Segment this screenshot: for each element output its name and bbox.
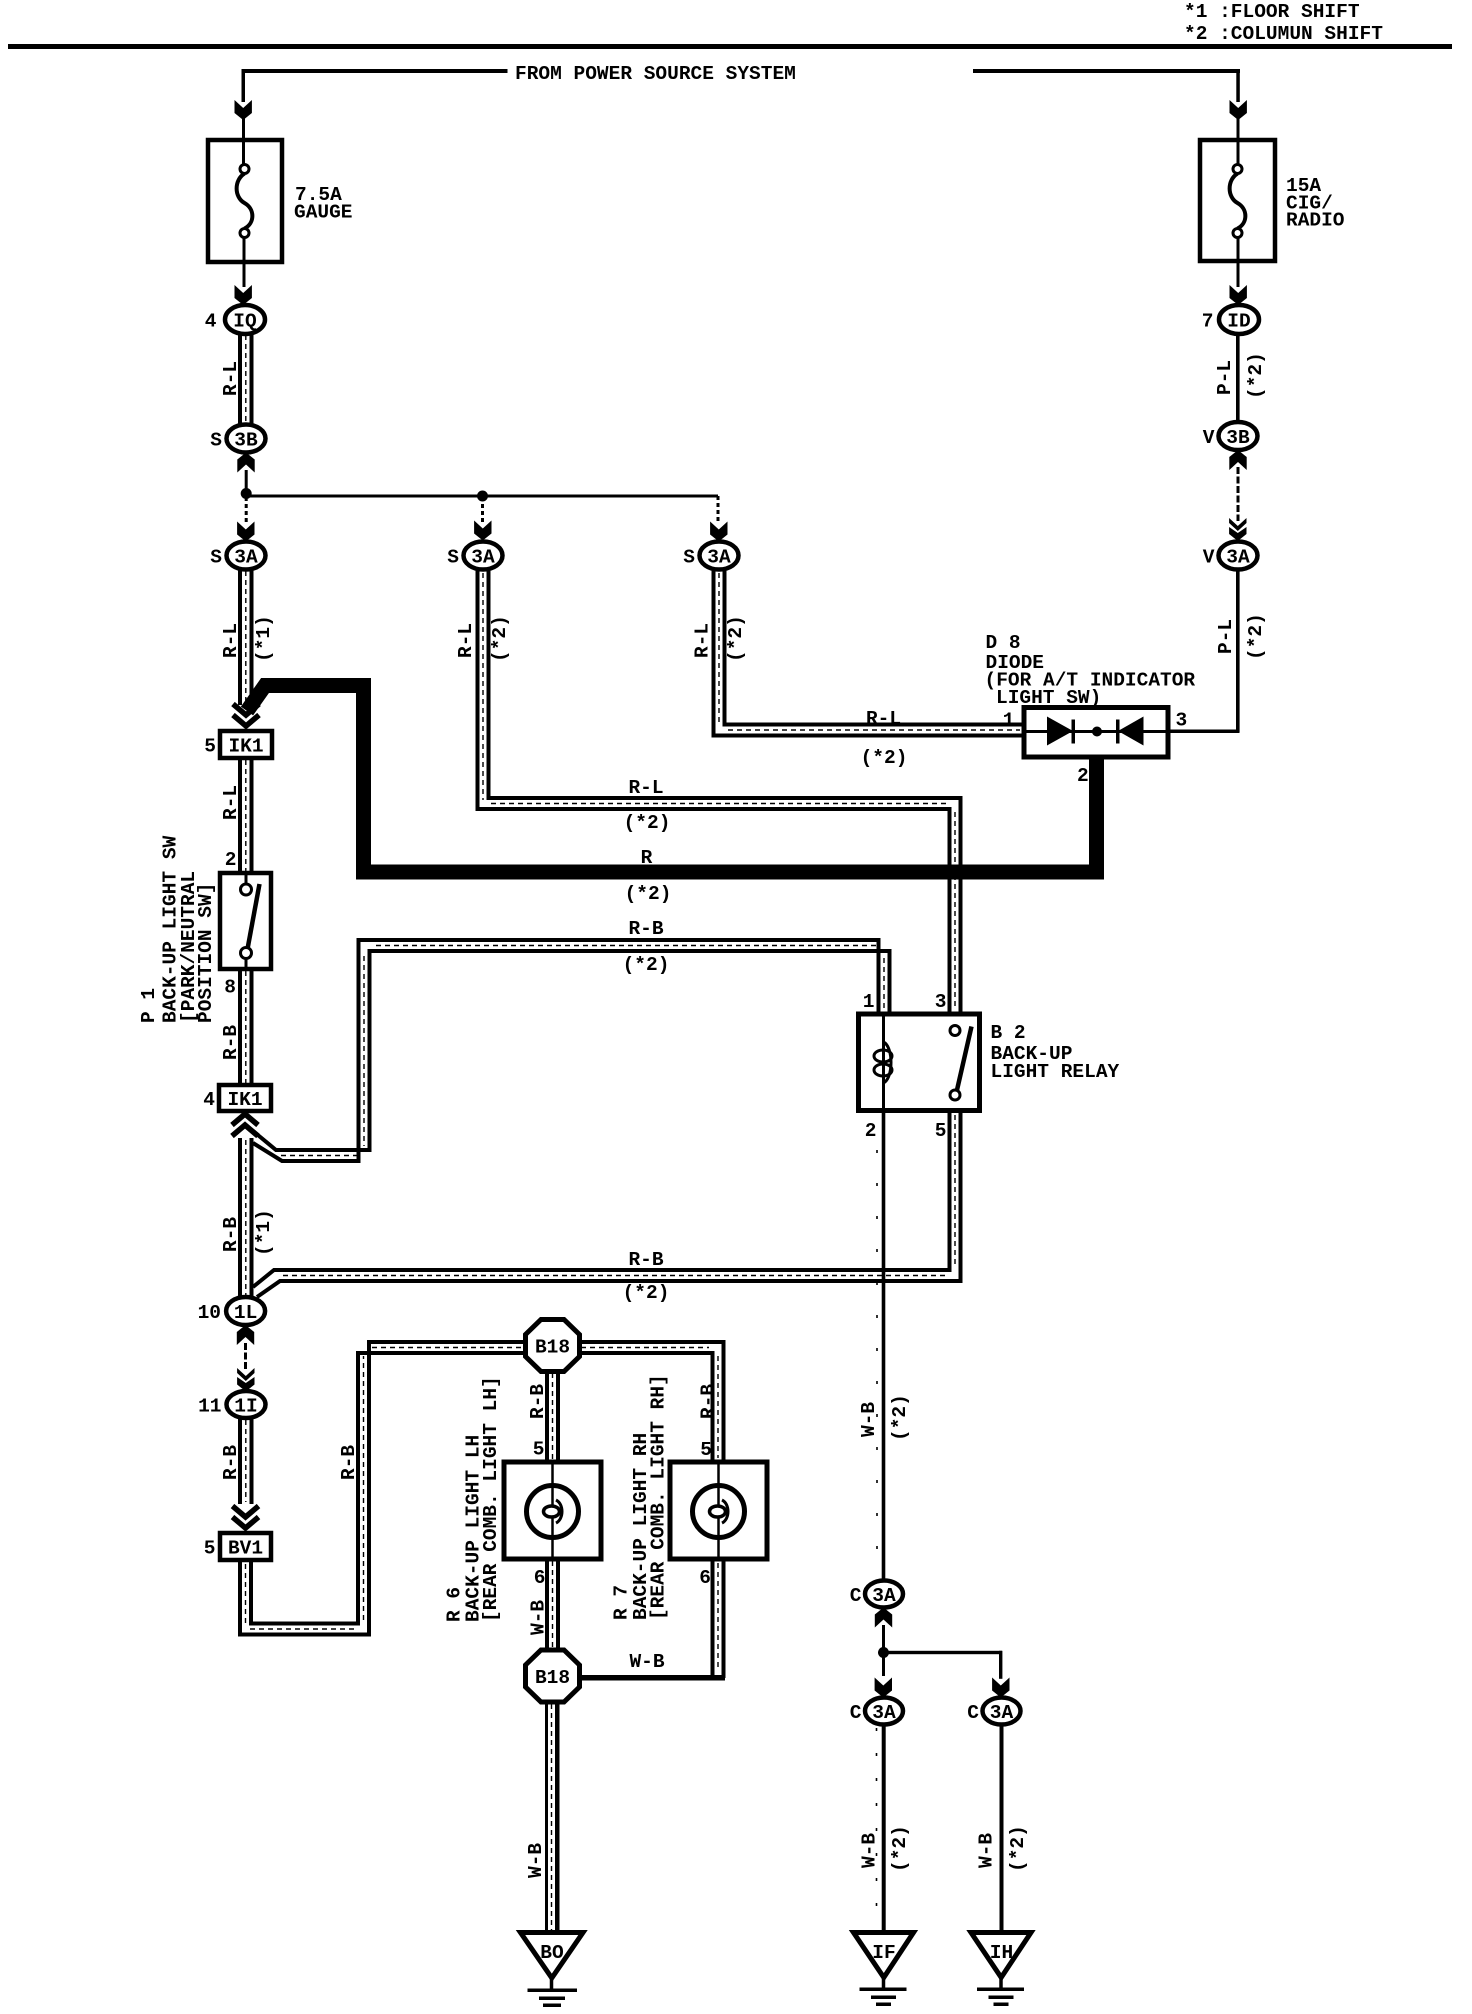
svg-text:3A: 3A [707,547,731,569]
connector oval S 3A no.3 [700,542,739,570]
connector oval C 3A left [865,1698,903,1725]
connector oval S 3A no.2 [464,542,503,570]
wire: power feed horizontal right segment [973,69,1240,73]
svg-text:5: 5 [204,1538,216,1560]
chevron arrows up into 4IK1 [232,1114,258,1125]
svg-text:RADIO: RADIO [1286,210,1345,232]
svg-text:R-B: R-B [220,1445,242,1480]
svg-text:IF: IF [872,1942,895,1964]
svg-text:3A: 3A [872,1585,896,1607]
fuse element S-curve [1230,174,1246,229]
wire R-L (*2): S3A no.2 down and right to relay pin3 (double line path) [478,569,950,1014]
ground BO triangle [521,1933,584,1979]
double arrow down into V3A [1229,518,1246,531]
ground BO stem and bars [550,1978,554,1989]
svg-text:R-L: R-L [692,623,714,658]
lamp R7 bulb [693,1486,745,1538]
wire R-B (*1): 4IK1 down to IL (double line) [238,1138,242,1298]
svg-text:GAUGE: GAUGE [294,202,353,224]
svg-text:B18: B18 [535,1337,570,1359]
relay coil [882,1014,885,1111]
arrow into left fuse [235,100,252,120]
svg-text:IH: IH [990,1942,1013,1964]
connector octagon B18 lower [526,1650,580,1702]
svg-text:*2 :COLUMUN SHIFT: *2 :COLUMUN SHIFT [1184,23,1383,45]
svg-text:R-L: R-L [220,785,242,820]
arrow up into V3B [1229,450,1246,470]
svg-text:[REAR COMB. LIGHT LH]: [REAR COMB. LIGHT LH] [480,1376,502,1622]
wire: fuse to connector ID [1237,237,1240,287]
svg-text:R-L: R-L [628,777,663,799]
svg-text:3B: 3B [234,430,258,452]
diode element right [1118,717,1144,746]
connector oval V 3A [1219,542,1258,570]
diode element left [1047,717,1073,746]
svg-text:5: 5 [935,1120,947,1142]
wire: drop to S3A no.2 [481,497,484,523]
svg-text:V: V [1203,427,1215,449]
thick wire R (*2): from IK1 node to diode pin 2 [247,686,1097,873]
svg-text:5: 5 [204,736,216,758]
svg-text:8: 8 [224,977,236,999]
svg-text:C: C [967,1702,979,1724]
wire W-B (*2): C3A left down to ground IF [882,1725,886,1933]
svg-text:(*2): (*2) [861,747,908,769]
wire R-L: IK1 to P1 pin2 (double line) [238,758,242,873]
svg-text:3A: 3A [234,547,258,569]
svg-text:5: 5 [533,1439,545,1461]
svg-text:R-L: R-L [866,708,901,730]
svg-text:R-B: R-B [220,1217,242,1252]
wire W-B (*2): C3A right down to ground IH [1000,1725,1004,1933]
fuse element top contact [240,165,249,174]
svg-text:4: 4 [203,1089,215,1111]
wire R-B (*2): relay pin1 up and around to 4IK1 (double line path) [253,951,890,1150]
wire R-B: B18 right to R7 pin5 (double line path) [578,1353,713,1461]
wire: IL to II [244,1343,247,1371]
svg-text:1: 1 [863,991,875,1013]
svg-text:S: S [210,430,222,452]
wire: left power drop to fuse [242,69,246,102]
arrow into S3A no.2 [474,521,491,541]
wire: V3B down to V3A [1237,467,1240,521]
svg-text:5: 5 [700,1439,712,1461]
svg-text:R-B: R-B [338,1445,360,1480]
svg-text:(*2): (*2) [623,1282,670,1304]
svg-text:(*2): (*2) [1245,613,1267,660]
svg-text:R-L: R-L [455,623,477,658]
wire: fuse to connector IQ [243,237,246,287]
relay B2 box [859,1014,980,1111]
wire R-B (*2): relay pin5 down and left to IL (double line path) [253,1111,950,1287]
svg-text:BV1: BV1 [228,1538,263,1560]
svg-text:(*1): (*1) [253,1209,275,1256]
diode internal line [1024,730,1168,733]
double arrow down into II [237,1368,254,1381]
wire R-L (*2): S3A no.3 down and right to diode pin1 (double line path) [714,569,1025,736]
svg-text:B 2: B 2 [991,1022,1026,1044]
svg-text:C: C [850,1702,862,1724]
relay switch contact top [950,1026,960,1036]
wire P-L (*2): V3A down to diode pin3 [1236,569,1240,732]
svg-text:(*2): (*2) [889,1394,911,1441]
svg-text:B18: B18 [535,1667,570,1689]
connector octagon B18 upper [526,1320,580,1372]
fuse element bottom contact [240,229,249,238]
svg-text:W-B: W-B [976,1833,998,1868]
wire: power feed horizontal left segment [242,69,508,73]
svg-text:*1 :FLOOR SHIFT: *1 :FLOOR SHIFT [1184,1,1360,23]
svg-text:(*2): (*2) [1007,1825,1029,1872]
arrow into S3A no.3 [710,522,727,542]
fuse 7.5A GAUGE box [208,140,282,262]
node: junction dot at S3B branch [241,488,252,499]
svg-text:7: 7 [1202,311,1214,333]
svg-text:IK1: IK1 [227,1089,262,1111]
connector oval IQ pin 4 [225,305,265,334]
arrow down into C3A right [992,1678,1009,1698]
ground IH triangle [971,1933,1031,1978]
svg-text:R-B: R-B [527,1384,549,1419]
svg-text:W-B: W-B [528,1600,550,1635]
svg-text:ID: ID [1227,311,1250,333]
svg-text:1I: 1I [234,1396,257,1418]
svg-text:6: 6 [534,1567,546,1589]
svg-text:3A: 3A [990,1702,1014,1724]
lamp R6 back-up light LH box [504,1462,601,1559]
wire R-B: BV1 loop to B18 (double line path) [251,1353,527,1624]
svg-text:W-B: W-B [858,1402,880,1437]
svg-text:R: R [641,847,653,869]
svg-text:R-B: R-B [628,1249,663,1271]
lamp R6 bulb [527,1486,579,1538]
svg-text:(*2): (*2) [625,883,672,905]
wire R-B: P1 pin8 to 4IK1 (double line) [238,969,242,1085]
svg-text:3A: 3A [872,1702,896,1724]
svg-text:P 1: P 1 [138,988,160,1023]
top border line [8,44,1452,49]
arrow up into C3A top [875,1608,892,1628]
wire: right power drop to fuse 15A [1236,69,1240,102]
svg-text:W-B: W-B [859,1833,881,1868]
wire: C3A to junction [882,1625,885,1649]
svg-text:P-L: P-L [1214,360,1236,395]
wire: S3B down to junction [245,470,248,494]
svg-text:FROM POWER SOURCE SYSTEM: FROM POWER SOURCE SYSTEM [515,63,796,85]
wire: corner drop to S3A no.3 [717,496,720,524]
svg-text:R-B: R-B [698,1384,720,1419]
relay switch contact bottom [950,1090,960,1100]
diode D8 box [1024,708,1168,758]
svg-text:2: 2 [1077,765,1089,787]
connector oval V 3B [1219,422,1258,450]
connector oval IL pin 10 [226,1297,265,1325]
svg-text:(*1): (*1) [253,615,275,662]
arrow down into C3A left [875,1678,892,1698]
connector oval S 3A no.1 [227,542,266,570]
wire: junction horizontal branch line [246,495,718,498]
wire R-L: IQ to S3B (double line) [238,333,242,425]
wire center dash marks [246,573,1021,1670]
wire W-B: R7 pin6 down and left to B18 lower [711,1559,715,1676]
wire: junction horizontal branch [884,1651,1003,1654]
wire: diode pin3 to P-L drop [1168,730,1240,734]
svg-text:(*2): (*2) [725,615,747,662]
arrow up into IL [237,1325,254,1345]
dotted trace beside W-B wire [876,1150,878,1575]
connector box IK1 pin 4 [219,1085,271,1111]
connector oval C 3A right [983,1698,1021,1725]
svg-text:LIGHT RELAY: LIGHT RELAY [991,1061,1120,1083]
svg-text:S: S [210,547,222,569]
svg-text:3A: 3A [1226,547,1250,569]
svg-text:11: 11 [198,1396,221,1418]
wire R-B: II to BV1 (double line) [238,1418,242,1504]
svg-text:3A: 3A [471,547,495,569]
connector oval C 3A top [865,1581,903,1608]
P1 bottom contact [241,948,252,959]
chevron arrows into BV1 [233,1506,259,1517]
arrow into S3A no.1 [237,522,254,542]
svg-text:BO: BO [540,1942,564,1964]
svg-text:W-B: W-B [525,1843,547,1878]
connector oval II pin 11 [227,1391,266,1418]
diode center node dot pin2 [1092,727,1102,737]
svg-text:2: 2 [865,1120,877,1142]
svg-text:3: 3 [1176,710,1188,732]
node: junction dot at second branch [477,491,488,502]
node: junction dot below C3A [878,1647,889,1658]
svg-text:C: C [850,1585,862,1607]
fuse element bottom contact [1233,229,1242,238]
svg-text:IQ: IQ [233,311,257,333]
arrow into right fuse [1230,100,1247,120]
chevron arrows into IK1 pin5 [233,704,259,715]
fuse element top contact [1233,165,1242,174]
lamp R7 back-up light RH box [670,1462,767,1559]
svg-text:3: 3 [935,991,947,1013]
wire W-B: R6 pin6 down to B18 lower (double line) [545,1559,549,1651]
svg-text:S: S [447,547,459,569]
relay switch blade [957,1027,972,1091]
svg-text:(*2): (*2) [489,615,511,662]
P1 switch blade [248,884,260,949]
arrow into connector IQ [235,285,252,305]
ground IF triangle [854,1933,914,1978]
svg-text:D 8: D 8 [986,632,1021,654]
svg-text:4: 4 [205,311,217,333]
P1 top contact [245,873,248,884]
svg-text:(*2): (*2) [623,954,670,976]
svg-text:R-B: R-B [220,1025,242,1060]
svg-text:6: 6 [699,1567,711,1589]
wire stub into fuse box [242,117,245,167]
svg-text:[REAR COMB. LIGHT RH]: [REAR COMB. LIGHT RH] [648,1374,670,1620]
fuse 15A CIG/RADIO box [1200,140,1275,261]
svg-text:(*2): (*2) [1245,352,1267,399]
svg-text:S: S [683,547,695,569]
svg-text:R-L: R-L [220,361,242,396]
switch P1 back-up light sw box [220,873,271,969]
fuse element S-curve [237,174,253,229]
wire: drop to S3A no.1 [245,497,248,524]
wire W-B (*2): relay pin2 down to C3A [882,1111,886,1581]
svg-text:1L: 1L [234,1302,257,1324]
connector box IK1 pin 5 [220,731,272,758]
connector oval S 3B [227,425,266,453]
arrow into connector ID [1230,285,1247,305]
svg-text:W-B: W-B [629,1651,664,1673]
svg-text:10: 10 [198,1302,221,1324]
svg-text:R-B: R-B [628,918,663,940]
wire P-L (*2): ID to V3B [1236,334,1240,424]
svg-text:R-L: R-L [220,623,242,658]
svg-text:2: 2 [225,849,237,871]
svg-text:IK1: IK1 [228,736,263,758]
svg-text:(*2): (*2) [624,812,671,834]
wire W-B: B18 lower down to ground BO (double line) [545,1702,548,1933]
arrow up into S3B [237,453,254,473]
connector oval ID pin 7 [1219,305,1259,334]
svg-text:(*2): (*2) [889,1825,911,1872]
wire R-L (*1): S3A no.1 down to IK1 (double line) [238,569,242,705]
connector box BV1 pin 5 [220,1533,271,1560]
svg-text:1: 1 [1003,710,1015,732]
svg-text:3B: 3B [1226,427,1250,449]
wire R-B: B18 down to R6 pin5 (double line) [545,1371,549,1462]
svg-text:POSITION SW]: POSITION SW] [195,883,217,1023]
svg-text:V: V [1203,547,1215,569]
svg-text:P-L: P-L [1215,619,1237,654]
